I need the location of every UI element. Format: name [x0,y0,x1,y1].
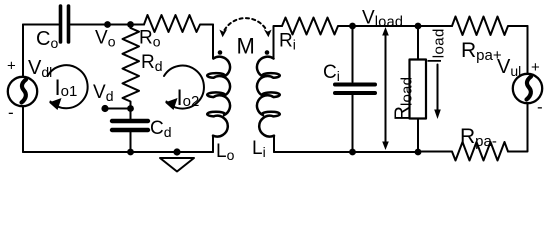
capacitor C_d [112,121,148,130]
inductor L_i [257,57,280,152]
svg-text:+: + [531,59,540,76]
wire: R_load bottom lead [417,119,419,153]
source V_dl squiggle [22,80,27,103]
wire: corner down to L_o top [212,25,214,59]
svg-text:Ci: Ci [323,62,340,84]
resistor R_o [144,15,213,32]
node ground dot [173,148,180,155]
node V_d terminal dot [101,105,108,112]
svg-text:-: - [537,98,543,117]
wire: L_i top to rail [274,26,283,59]
wire: node to C_d top plate [130,109,132,120]
svg-text:Vdl: Vdl [28,57,52,80]
node C_i bottom dot [349,149,356,156]
resistor R_pa- [418,142,508,161]
current loop arrow I_o2 [164,66,204,110]
svg-text:Vload: Vload [362,8,403,31]
node V_d junction dot [127,105,134,112]
wire: C_d bottom plate to bottom rail [130,132,132,152]
wire: top rail C_o to R_o [71,24,145,26]
svg-text:-: - [8,103,14,122]
svg-text:Vul: Vul [497,56,521,79]
wire: primary left vertical (source bottom to bottom rail) [22,106,24,152]
wire: top rail left segment [23,24,59,26]
source V_dl circle [8,77,37,106]
L_i coupling dot [265,50,270,55]
L_o coupling dot [218,50,223,55]
node R_d junction dot [127,21,134,28]
svg-text:Rload: Rload [392,77,416,121]
svg-text:+: + [7,58,16,75]
mutual inductance dashed arrow M [219,18,271,37]
wire: V_d stub [105,108,131,110]
source V_ul squiggle [527,77,532,100]
svg-text:Ro: Ro [139,28,161,50]
ground symbol [160,158,194,172]
wire: top rail C_i node to R_load node [353,25,419,27]
capacitor C_o [61,6,69,42]
wire: secondary bottom rail [274,151,418,153]
resistor R_i [282,18,352,35]
capacitor C_i [335,85,375,94]
node R_load top dot [415,23,422,30]
svg-text:Li: Li [252,138,266,160]
svg-text:Rd: Rd [141,52,163,74]
wire: primary bottom rail [23,151,213,153]
wire: C_i bottom to rail [352,95,354,152]
svg-text:Vd: Vd [93,82,113,104]
node C_d bottom rail dot [127,149,134,156]
svg-text:Cd: Cd [150,118,172,140]
resistor R_pa+ [452,17,528,36]
wire: right edge bottom (V_ul to bottom rail) [508,103,528,152]
resistor R_load (box) [410,60,427,119]
wire: right edge top (rail to V_ul) [527,26,529,74]
node R_load bottom dot [415,149,422,156]
svg-text:Rpa+: Rpa+ [461,39,502,64]
svg-text:Vo: Vo [95,28,116,50]
inductor L_o [207,57,230,152]
node V_o dot [104,21,111,28]
resistor R_d (vertical) [123,28,140,109]
svg-text:Iload: Iload [425,28,448,63]
node C_i top dot [349,23,356,30]
V_load measurement arrow (double-headed) [382,27,389,150]
svg-text:M: M [237,34,255,59]
svg-text:Io1: Io1 [55,75,78,100]
svg-text:Rpa-: Rpa- [460,125,497,150]
wire: primary left vertical (top rail to source top) [22,25,24,78]
current loop arrow I_o1 [48,65,88,110]
source V_ul circle [513,74,542,103]
svg-text:Co: Co [36,28,58,51]
svg-text:Io2: Io2 [177,85,200,110]
wire: R_load top lead [417,26,419,60]
wire: C_i vertical top [352,26,354,82]
wire: top rail to R_pa+ [418,25,452,27]
current arrow I_load [434,65,441,120]
svg-text:Lo: Lo [216,141,235,163]
